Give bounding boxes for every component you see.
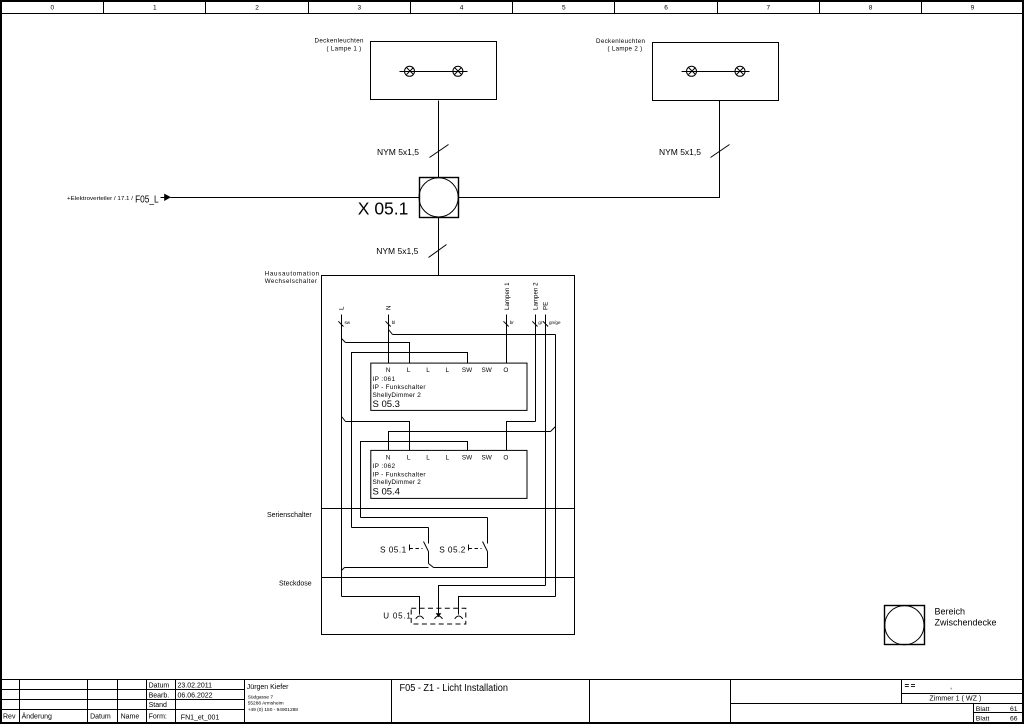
S05.3 texts bbox=[373, 376, 427, 399]
svg-text:9: 9 bbox=[971, 5, 975, 12]
svg-text:SW: SW bbox=[462, 367, 473, 374]
svg-text:L: L bbox=[407, 454, 411, 461]
svg-text:Steckdose: Steckdose bbox=[279, 581, 312, 588]
wire S05.1 jog stub bbox=[429, 564, 434, 568]
svg-text:L: L bbox=[426, 454, 430, 461]
wire X05.1 right and up to lamp2 bbox=[459, 101, 720, 198]
svg-text:PE: PE bbox=[542, 302, 549, 310]
svg-text:IP - Funkschalter: IP - Funkschalter bbox=[373, 471, 427, 478]
wire L branch stub to S05.4 bbox=[342, 417, 346, 422]
wire N to socket bbox=[459, 597, 556, 609]
box labels left bbox=[265, 271, 320, 286]
legend text bbox=[935, 606, 997, 627]
wire L branch stub to S05.3 bbox=[342, 339, 346, 343]
svg-text:7: 7 bbox=[766, 5, 770, 12]
wire SW1 horizontal to S05.3 SW bbox=[352, 353, 468, 528]
svg-text:+Elektroverteiler / 17.1 /: +Elektroverteiler / 17.1 / bbox=[67, 196, 134, 202]
wire L junction stub at switches bbox=[342, 568, 345, 571]
S05.4 terminal labels bbox=[386, 454, 509, 461]
svg-text:U 05.1: U 05.1 bbox=[383, 612, 411, 621]
svg-text:IP :062: IP :062 bbox=[373, 463, 396, 470]
svg-text:Blatt: Blatt bbox=[976, 706, 990, 713]
svg-text:66: 66 bbox=[1010, 716, 1018, 723]
svg-text:4: 4 bbox=[460, 5, 464, 12]
wire N branch stub diagonal bbox=[551, 427, 556, 432]
svg-text:NYM 5x1,5: NYM 5x1,5 bbox=[377, 147, 419, 157]
section divider Steckdose bbox=[322, 577, 575, 579]
svg-text:sw: sw bbox=[345, 320, 351, 325]
svg-text:F05_L: F05_L bbox=[135, 194, 159, 205]
dimmer box S05.4 bbox=[371, 450, 527, 498]
wire gr jog to S05.4 O bbox=[507, 422, 536, 451]
svg-text:SW: SW bbox=[482, 454, 493, 461]
svg-text:N: N bbox=[386, 306, 393, 310]
svg-text:L: L bbox=[446, 367, 450, 374]
svg-text:Blatt: Blatt bbox=[976, 716, 990, 723]
header strip bottom line bbox=[2, 13, 1023, 15]
cable NYM 5x1,5 below X05.1 bbox=[376, 245, 446, 258]
junction box X05.1 bbox=[419, 178, 459, 218]
svg-text:L: L bbox=[339, 306, 346, 310]
lamp 2 label bbox=[596, 38, 645, 53]
wire SW2 to S05.4 SW bbox=[361, 442, 468, 518]
svg-text:Serienschalter: Serienschalter bbox=[267, 512, 312, 519]
wire L branch horizontal to S05.4 L bbox=[346, 422, 410, 451]
conductor tick gr bbox=[532, 320, 543, 327]
title block grid bbox=[2, 680, 1023, 723]
svg-text:( Lampe 1 ): ( Lampe 1 ) bbox=[327, 45, 362, 52]
socket pin L bbox=[416, 609, 424, 619]
svg-text:Lampen 2: Lampen 2 bbox=[533, 282, 540, 310]
svg-text:Form:: Form: bbox=[149, 714, 167, 721]
svg-text:Deckenleuchten: Deckenleuchten bbox=[315, 38, 364, 45]
svg-text:8: 8 bbox=[869, 5, 873, 12]
wire SW1 horizontal to switch S05.1 bbox=[352, 527, 429, 529]
svg-text:+49 (0) 150 - 94901288: +49 (0) 150 - 94901288 bbox=[248, 707, 299, 713]
ceiling lamp box 1 bbox=[371, 42, 497, 100]
wire switch common right bbox=[434, 567, 488, 569]
svg-text:IP :061: IP :061 bbox=[373, 376, 396, 383]
svg-text:SW: SW bbox=[482, 367, 493, 374]
socket pin PE bbox=[435, 609, 443, 619]
Blatt rows bbox=[976, 706, 1018, 723]
svg-text:23.02.2011: 23.02.2011 bbox=[178, 683, 213, 690]
svg-text:Datum: Datum bbox=[149, 683, 170, 690]
wire switch common left bbox=[345, 567, 429, 569]
svg-text:Zwischendecke: Zwischendecke bbox=[935, 618, 997, 628]
svg-text:Bereich: Bereich bbox=[935, 606, 966, 616]
svg-text:F05 - Z1 - Licht Installation: F05 - Z1 - Licht Installation bbox=[400, 683, 509, 694]
wire N bus vertical right bbox=[555, 335, 557, 597]
lamp symbols box 2 bbox=[682, 66, 750, 76]
conductor tick bl bbox=[386, 320, 396, 327]
svg-text:61: 61 bbox=[1010, 706, 1018, 713]
socket U05.1 bbox=[411, 608, 466, 624]
cable NYM 5x1,5 on lamp1 wire bbox=[377, 145, 449, 158]
svg-text:O: O bbox=[503, 454, 508, 461]
wire Lampen2 gr vertical bbox=[535, 315, 537, 422]
svg-text:1: 1 bbox=[153, 5, 157, 12]
socket pin N bbox=[455, 609, 463, 619]
svg-text:gr: gr bbox=[538, 320, 543, 325]
svg-text:( Lampe 2 ): ( Lampe 2 ) bbox=[608, 46, 643, 53]
svg-text:ShellyDimmer 2: ShellyDimmer 2 bbox=[373, 479, 422, 486]
svg-text:3: 3 bbox=[357, 5, 361, 12]
svg-text:X 05.1: X 05.1 bbox=[358, 199, 409, 219]
svg-text:O: O bbox=[503, 367, 508, 374]
svg-text:5: 5 bbox=[562, 5, 566, 12]
svg-text:06.06.2022: 06.06.2022 bbox=[178, 692, 213, 699]
svg-text:IP - Funkschalter: IP - Funkschalter bbox=[373, 384, 427, 391]
svg-text:L: L bbox=[426, 367, 430, 374]
svg-text:==: == bbox=[905, 682, 917, 691]
conductor tick gn/ge bbox=[543, 320, 561, 327]
wire N vertical to S05.3 bbox=[388, 315, 390, 364]
svg-text:S 05.4: S 05.4 bbox=[373, 486, 400, 497]
svg-text:Hausautomation: Hausautomation bbox=[265, 271, 320, 278]
lamp symbols box 1 bbox=[400, 66, 468, 76]
svg-text:Lampen 1: Lampen 1 bbox=[504, 282, 511, 310]
svg-text:Rev: Rev bbox=[3, 714, 16, 721]
svg-text:N: N bbox=[386, 454, 391, 461]
wire PE gn/ge vertical bbox=[545, 315, 547, 586]
legend symbol Bereich Zwischendecke bbox=[885, 606, 925, 645]
svg-text:NYM 5x1,5: NYM 5x1,5 bbox=[659, 147, 701, 157]
svg-text:Name: Name bbox=[121, 714, 140, 721]
wire Lampen1 br to S05.3 O bbox=[506, 315, 508, 364]
svg-text:,: , bbox=[950, 682, 952, 691]
svg-text:Jürgen Kiefer: Jürgen Kiefer bbox=[247, 684, 289, 691]
wire PE to socket bbox=[439, 586, 546, 609]
svg-text:ShellyDimmer 2: ShellyDimmer 2 bbox=[373, 392, 422, 399]
svg-text:2: 2 bbox=[255, 5, 259, 12]
svg-text:bl: bl bbox=[392, 320, 396, 325]
wire L vertical bbox=[341, 315, 343, 597]
svg-text:SW: SW bbox=[462, 454, 473, 461]
svg-text:Datum: Datum bbox=[90, 714, 111, 721]
wire N bus horizontal bbox=[393, 334, 556, 336]
svg-text:S 05.2: S 05.2 bbox=[439, 544, 466, 554]
svg-text:Zimmer 1 ( WZ ): Zimmer 1 ( WZ ) bbox=[929, 694, 981, 703]
wire N branch stub bbox=[389, 330, 393, 335]
svg-text:S 05.1: S 05.1 bbox=[380, 544, 407, 554]
switch S05.1 bbox=[410, 528, 429, 564]
svg-text:Deckenleuchten: Deckenleuchten bbox=[596, 38, 645, 45]
wire L to socket bbox=[342, 597, 420, 609]
svg-text:FN1_et_001: FN1_et_001 bbox=[181, 715, 220, 722]
svg-text:Bearb.: Bearb. bbox=[149, 692, 170, 699]
lamp 1 label bbox=[315, 38, 364, 53]
svg-text:Wechselschalter: Wechselschalter bbox=[265, 278, 318, 285]
interruption point +Elektroverteiler/17.1 feed label bbox=[67, 194, 159, 205]
svg-text:6: 6 bbox=[664, 5, 668, 12]
title block author bbox=[247, 684, 299, 713]
svg-text:L: L bbox=[446, 454, 450, 461]
svg-text:Stand: Stand bbox=[149, 702, 167, 709]
wire X05.1 down to distribution box bbox=[438, 218, 440, 276]
header column dividers bbox=[104, 2, 922, 14]
wire SW2 horizontal to switch S05.2 bbox=[361, 517, 488, 519]
wire L branch horizontal to S05.3 L bbox=[346, 343, 410, 364]
svg-text:0: 0 bbox=[50, 5, 54, 12]
switch S05.2 bbox=[469, 518, 488, 568]
cable NYM 5x1,5 on lamp2 wire bbox=[659, 145, 730, 158]
header column numbers bbox=[50, 5, 974, 12]
section divider Serienschalter bbox=[322, 508, 575, 510]
svg-text:gn/ge: gn/ge bbox=[549, 320, 561, 325]
svg-text:NYM 5x1,5: NYM 5x1,5 bbox=[376, 246, 418, 256]
svg-text:S 05.3: S 05.3 bbox=[373, 399, 400, 410]
interruption arrow bbox=[161, 194, 172, 201]
wire N branch to S05.4 N bbox=[389, 432, 551, 451]
wire lamp1 down to X05.1 bbox=[438, 101, 440, 178]
svg-text:55288 Armsheim: 55288 Armsheim bbox=[248, 701, 284, 707]
conductor tick sw bbox=[338, 320, 350, 327]
svg-text:N: N bbox=[386, 367, 391, 374]
dimmer box S05.3 bbox=[371, 363, 527, 410]
svg-text:Südgasse 7: Südgasse 7 bbox=[248, 695, 274, 701]
conductor tick br bbox=[504, 320, 515, 327]
S05.3 terminal labels bbox=[386, 367, 509, 374]
distribution box Hausautomation bbox=[322, 276, 575, 635]
svg-text:Änderung: Änderung bbox=[22, 713, 52, 721]
S05.4 texts bbox=[373, 463, 427, 486]
ceiling lamp box 2 bbox=[653, 43, 779, 101]
svg-text:L: L bbox=[407, 367, 411, 374]
svg-text:br: br bbox=[510, 320, 515, 325]
title block texts left bbox=[3, 683, 219, 722]
wire feed to X05.1 bbox=[171, 197, 420, 199]
